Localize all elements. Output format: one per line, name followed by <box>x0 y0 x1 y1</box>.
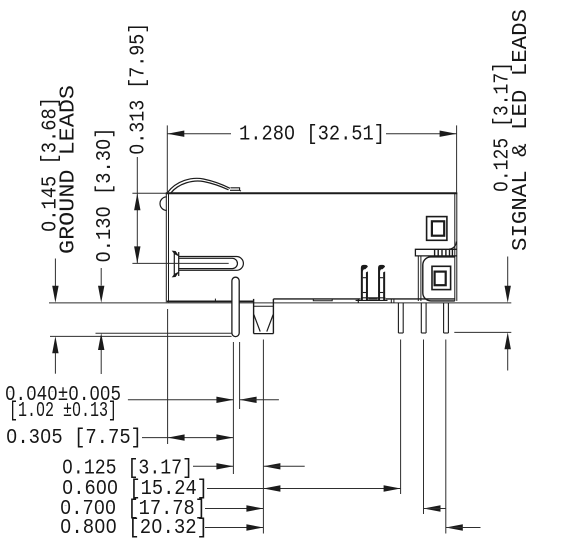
dim 0.305 line <box>142 437 233 439</box>
housing ledge <box>415 249 456 256</box>
dim 1.280 extension line right <box>456 125 458 192</box>
dim 1.280 arrowhead left <box>167 131 184 137</box>
dim 0.800 arrowhead at pin 3 <box>446 524 463 530</box>
dim 0.125 right leader lower <box>507 349 509 371</box>
dim 0.305 arrowhead right <box>216 434 233 440</box>
dim 0.700 arrowhead at peg line <box>246 505 263 511</box>
extension line peg center <box>262 340 264 534</box>
dim 0.125 bottom line right <box>263 465 304 467</box>
signal pin 1 <box>397 303 399 333</box>
dim 0.130 leader upper <box>100 268 102 286</box>
svg-text:GROUND LEADS: GROUND LEADS <box>58 85 81 254</box>
svg-text:0.313 [7.95]: 0.313 [7.95] <box>128 23 151 155</box>
latch arm tube inner <box>179 258 238 268</box>
dim 0.600 arrowhead right <box>384 485 401 491</box>
LED window upper outer <box>427 217 447 241</box>
dim 0.700 line left <box>205 508 263 510</box>
dim 0.313 extension line top <box>132 192 166 194</box>
dim 0.125 bottom arrowhead left-pointing <box>263 463 280 469</box>
extension line body left edge <box>167 309 169 444</box>
LED window lower outer <box>432 266 451 289</box>
dim 0.313 extension line bottom <box>132 262 228 264</box>
extension line signal pin 3 <box>445 340 447 534</box>
dim 0.800 line left <box>205 527 263 529</box>
bottom edge tick pair <box>390 299 392 303</box>
signal pin 2 <box>420 303 422 333</box>
dim 0.145 leader upper <box>54 259 56 288</box>
dim 1.280 extension line left <box>166 125 168 192</box>
svg-text:0.130 [3.30]: 0.130 [3.30] <box>94 128 117 263</box>
latch arm collar top flare <box>172 251 180 257</box>
dim 0.125 bottom arrowhead right-pointing <box>216 463 233 469</box>
signal pin 3 <box>443 303 445 333</box>
svg-text:1.280 [32.51]: 1.280 [32.51] <box>239 124 385 147</box>
dim 0.125 bottom line left <box>193 465 233 467</box>
connector body bottom edge left segment <box>167 300 254 302</box>
bottom edge notch <box>313 299 332 301</box>
lower housing face outline <box>423 257 455 301</box>
contact pin 2 crimp ticks <box>380 277 383 279</box>
dim 0.305 arrowhead left <box>168 434 185 440</box>
latch arm collar bottom flare <box>172 271 180 277</box>
dim 0.040 line left <box>128 399 233 401</box>
dim 0.130 arrowhead down <box>98 286 104 303</box>
housing fillet arc <box>449 242 456 250</box>
lower housing outer wall left <box>417 256 419 301</box>
dim 0.125 right arrowhead down <box>505 286 511 303</box>
contact pin base upper line <box>361 297 385 299</box>
dim 0.040 line right <box>240 399 279 401</box>
dim 0.125 right arrowhead up <box>505 332 511 349</box>
contact pin 2 body (curled strip) <box>378 265 386 301</box>
dim 0.800 arrowhead at peg line <box>246 524 263 530</box>
signal-lead level line (0.130 ref, left) <box>96 332 232 334</box>
LED window lower inner <box>435 272 446 286</box>
dim 0.145 arrowhead up <box>52 336 58 353</box>
dim 0.125 right leader upper <box>507 257 509 287</box>
extension line ground lead right <box>239 342 241 409</box>
latch arm tube outer <box>179 257 244 271</box>
connector body bottom edge right segment <box>273 298 454 300</box>
mounting peg right edge <box>272 299 274 334</box>
ground lead (rounded pin) <box>232 277 239 336</box>
LED window upper inner <box>432 221 444 235</box>
zero glyph dot masks <box>288 131 291 135</box>
latch arm collar <box>173 252 175 277</box>
signal-lead level line (0.125 ref, right) <box>454 331 511 333</box>
contact pin base lower line <box>356 299 388 301</box>
dim 0.600 arrowhead left <box>263 485 280 491</box>
extension line signal pin 1 <box>400 340 402 495</box>
dim 0.700 line right <box>424 508 446 510</box>
svg-text:0.800 [20.32]: 0.800 [20.32] <box>60 517 208 540</box>
connector body top edge <box>166 192 457 194</box>
bottom edge tick <box>214 299 216 302</box>
mounting peg left edge <box>253 299 255 334</box>
extension line signal pin 2 <box>423 340 425 515</box>
extension line ground lead left <box>232 342 234 474</box>
connector body left edge <box>165 193 167 303</box>
dim 0.040 arrowhead right-pointing <box>216 397 233 403</box>
bottom edge tick <box>357 299 359 303</box>
mounting peg chamfer right <box>267 315 273 332</box>
dim 0.800 line right <box>446 527 481 529</box>
dim 1.280 line left segment <box>167 133 231 135</box>
ledge hatch ticks <box>434 249 436 256</box>
dim 0.145 leader lower <box>54 353 56 374</box>
dim 0.313 arrowhead down <box>134 246 140 263</box>
dim 0.130 leader lower <box>100 350 102 374</box>
dim 1.280 arrowhead right <box>440 131 457 137</box>
dim 0.700 arrowhead at pin 2 <box>424 505 441 511</box>
dim 0.313 vertical line <box>136 157 138 263</box>
top latch spring arc <box>167 178 230 193</box>
dim 0.040 arrowhead left-pointing <box>240 397 257 403</box>
mounting peg chamfer left <box>254 315 260 332</box>
left bump half-circle <box>160 197 167 211</box>
connector body right edge <box>454 193 456 301</box>
svg-text:SIGNAL & LED LEADS: SIGNAL & LED LEADS <box>510 9 533 251</box>
contact pin 1 body (curled strip) <box>361 265 369 301</box>
svg-text:0.305 [7.75]: 0.305 [7.75] <box>6 427 142 450</box>
mounting peg bottom <box>254 333 274 335</box>
seating plane line <box>49 302 511 304</box>
svg-text:0.125 [3.17]: 0.125 [3.17] <box>62 457 193 480</box>
ground-lead level line (0.145 ref, left) <box>50 335 232 337</box>
svg-text:[1.02 ±0.13]: [1.02 ±0.13] <box>9 400 117 423</box>
dim 0.145 arrowhead down <box>52 286 58 303</box>
contact pin 1 crimp ticks <box>363 277 366 279</box>
dim 1.280 line right segment <box>386 133 457 135</box>
dim 0.130 arrowhead up <box>98 333 104 350</box>
top latch tail <box>230 188 240 191</box>
mounting peg top line <box>254 305 274 307</box>
dim 0.313 arrowhead up <box>134 193 140 210</box>
dim 0.600 line <box>207 488 401 490</box>
